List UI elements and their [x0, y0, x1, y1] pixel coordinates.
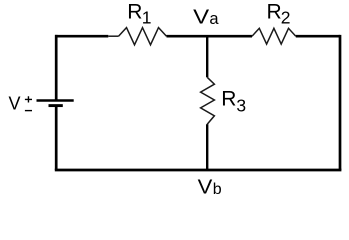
resistor R1: [119, 28, 167, 45]
wire: middle vertical lower stub: [206, 124, 208, 170]
battery V: long positive plate: [37, 99, 74, 101]
svg-text:V: V: [9, 93, 21, 113]
svg-text:R: R: [221, 88, 236, 111]
plus sign: [25, 96, 32, 102]
svg-text:a: a: [209, 10, 219, 28]
wire: top middle segment (R1 to R2): [167, 35, 253, 38]
svg-text:3: 3: [236, 96, 246, 116]
minus sign: [25, 110, 32, 112]
svg-text:V: V: [193, 7, 210, 29]
svg-text:V: V: [198, 176, 213, 198]
wire: top-right horizontal segment: [296, 35, 340, 38]
node Va junction stub: [206, 36, 208, 77]
wire: left vertical lower (battery to bottom): [55, 106, 58, 170]
battery V: short negative plate: [49, 104, 63, 107]
svg-text:R: R: [127, 1, 142, 24]
svg-text:1: 1: [142, 8, 152, 28]
resistor R3: [201, 77, 215, 124]
resistor R2: [252, 28, 296, 44]
wire: top-left horizontal segment: [55, 35, 108, 38]
wire: bottom horizontal: [55, 169, 342, 172]
svg-text:R: R: [267, 1, 282, 24]
wire: right vertical: [339, 35, 342, 170]
svg-text:b: b: [213, 181, 222, 198]
wire: thin lead left of R1: [108, 35, 118, 37]
svg-text:2: 2: [281, 8, 291, 28]
wire: left vertical upper (to battery): [55, 35, 58, 101]
